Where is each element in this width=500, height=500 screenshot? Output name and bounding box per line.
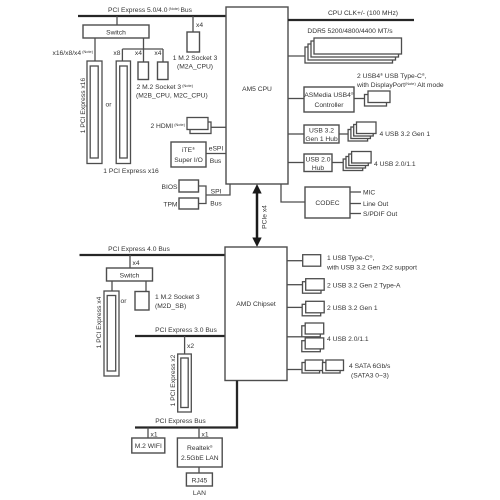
svg-text:USB 2.0: USB 2.0 <box>306 157 331 164</box>
label 1 USB Type-C with USB 3.2 Gen 2x2 support <box>326 254 417 272</box>
svg-text:BIOS: BIOS <box>162 184 179 191</box>
wire CPU to USB 2.0 hub <box>288 162 304 164</box>
wire bus3 to PCIe x2 slot <box>184 336 186 354</box>
svg-text:4 USB 2.0/1.1: 4 USB 2.0/1.1 <box>374 161 416 168</box>
ASMedia USB4 controller <box>304 87 354 112</box>
DDR5 DIMM stack <box>305 38 402 63</box>
wire bus4 to M.2 WIFI <box>147 428 149 439</box>
svg-text:(M2A_CPU): (M2A_CPU) <box>177 64 213 71</box>
label 4 SATA 6Gb/s (SATA3 0~3) <box>349 363 391 380</box>
bus PCI Express 4.0 <box>80 246 226 255</box>
Realtek 2.5GbE LAN <box>177 438 222 467</box>
svg-text:Gen 1 Hub: Gen 1 Hub <box>305 136 338 143</box>
svg-text:PCIe x4: PCIe x4 <box>262 205 269 229</box>
svg-text:1 M.2 Socket 3: 1 M.2 Socket 3 <box>155 294 200 301</box>
M.2 socket M2D_SB <box>135 292 149 311</box>
svg-text:1 USB Type-C®,: 1 USB Type-C®, <box>327 254 375 262</box>
wire hub to USB 2.0 ports <box>332 162 343 164</box>
svg-text:1 PCI Express x2: 1 PCI Express x2 <box>170 354 177 406</box>
USB4 port stack <box>365 91 391 106</box>
svg-text:with USB 3.2 Gen 2x2 support: with USB 3.2 Gen 2x2 support <box>326 265 417 272</box>
wire chipset to SATA <box>287 369 302 371</box>
USB 3.2 Gen 1 stack (chipset) <box>302 301 324 316</box>
wire Realtek to RJ45 <box>198 467 200 473</box>
wire CPU CLK <box>288 19 414 21</box>
svg-text:Switch: Switch <box>120 273 140 280</box>
svg-text:(M2B_CPU, M2C_CPU): (M2B_CPU, M2C_CPU) <box>136 93 208 100</box>
wire switch2 to M2D <box>145 281 147 292</box>
wire CPU to USB 3.2 hub <box>288 133 304 135</box>
USB 2.0 port stack <box>343 152 371 171</box>
PCIe x4 double arrow <box>252 184 261 247</box>
svg-text:x8: x8 <box>113 50 120 57</box>
svg-text:DDR5 5200/4800/4400 MT/s: DDR5 5200/4800/4400 MT/s <box>307 28 393 35</box>
svg-text:S/PDIF Out: S/PDIF Out <box>363 211 397 218</box>
SATA port stacks <box>302 360 344 373</box>
svg-text:PCI Express 3.0 Bus: PCI Express 3.0 Bus <box>155 327 217 334</box>
wire bus1 to switch <box>116 16 118 25</box>
svg-text:1 PCI Express x16: 1 PCI Express x16 <box>80 78 87 134</box>
label 2 USB4 USB Type-C with DisplayPort Alt mode <box>356 72 444 89</box>
svg-text:SPI: SPI <box>211 189 222 196</box>
svg-text:PCI Express Bus: PCI Express Bus <box>155 418 206 425</box>
svg-text:M.2 WIFI: M.2 WIFI <box>135 443 162 450</box>
switch (chipset side) <box>107 268 153 281</box>
wire bus1 to M2A <box>192 16 194 32</box>
wire S/PDIF Out <box>350 213 361 215</box>
label 1 M.2 Socket 3 (M2A_CPU) <box>173 55 218 71</box>
svg-text:Line Out: Line Out <box>363 201 388 208</box>
svg-text:2 USB 3.2 Gen 1: 2 USB 3.2 Gen 1 <box>327 305 378 312</box>
PCIe x4 slot <box>104 291 119 376</box>
wire CPU to CODEC <box>281 184 305 202</box>
svg-text:2.5GbE LAN: 2.5GbE LAN <box>181 455 219 462</box>
svg-text:1 M.2 Socket 3: 1 M.2 Socket 3 <box>173 55 218 62</box>
USB 2.0 Hub <box>304 154 332 172</box>
svg-text:MIC: MIC <box>363 190 375 197</box>
svg-text:x4: x4 <box>196 22 203 29</box>
svg-text:Hub: Hub <box>312 165 325 172</box>
svg-text:(SATA3 0~3): (SATA3 0~3) <box>351 373 389 380</box>
AMD Chipset <box>225 247 287 381</box>
svg-text:TPM: TPM <box>163 202 178 209</box>
svg-text:x2: x2 <box>187 343 194 350</box>
USB 3.2 Gen 1 Hub <box>304 125 339 143</box>
RJ45 box <box>186 473 212 486</box>
CODEC <box>305 187 350 218</box>
svg-text:1 PCI Express x4: 1 PCI Express x4 <box>96 296 103 348</box>
BIOS box <box>179 180 199 192</box>
wire hub to USB 3.2 ports <box>339 133 348 135</box>
PCIe x16 slot 1 <box>87 61 102 164</box>
svg-text:RJ45: RJ45 <box>192 478 208 485</box>
AM5 CPU <box>226 7 288 184</box>
wire chipset to USB 2.0 <box>287 336 302 338</box>
wire switch2 to PCIe x4 slot <box>111 281 113 291</box>
svg-text:ASMedia USB4®: ASMedia USB4® <box>304 91 353 99</box>
svg-text:USB 3.2: USB 3.2 <box>309 128 334 135</box>
svg-text:CODEC: CODEC <box>315 200 339 207</box>
wire chipset to USB 3.2 Gen 1 <box>287 306 302 308</box>
wire CPU to DDR5 <box>288 55 305 57</box>
svg-text:eSPI: eSPI <box>209 146 224 153</box>
wire ASMedia to USB4 ports <box>354 98 365 100</box>
svg-text:4 SATA 6Gb/s: 4 SATA 6Gb/s <box>349 363 391 370</box>
svg-text:CPU CLK+/- (100 MHz): CPU CLK+/- (100 MHz) <box>328 10 398 17</box>
svg-text:4 USB 2.0/1.1: 4 USB 2.0/1.1 <box>327 336 369 343</box>
svg-text:2 USB 3.2 Gen 2 Type-A: 2 USB 3.2 Gen 2 Type-A <box>327 283 401 290</box>
TPM box <box>179 198 199 209</box>
svg-text:with DisplayPort(Note) Alt mod: with DisplayPort(Note) Alt mode <box>356 81 444 89</box>
switch (CPU side) <box>83 25 149 38</box>
svg-text:PCI Express 5.0/4.0 (Note) Bus: PCI Express 5.0/4.0 (Note) Bus <box>108 6 193 14</box>
svg-text:Bus: Bus <box>210 158 222 165</box>
label SPI Bus <box>210 189 222 208</box>
HDMI connector stack <box>187 118 211 134</box>
PCIe x2 slot <box>178 354 192 412</box>
svg-text:Controller: Controller <box>315 102 345 109</box>
wire chipset to PCI Express bus <box>236 381 238 429</box>
wire CPU to ASMedia <box>288 98 304 100</box>
wire Line Out <box>350 203 361 205</box>
wire HDMI to CPU <box>211 126 226 128</box>
svg-text:LAN: LAN <box>193 490 206 497</box>
wire bus2 to switch2 <box>129 255 131 268</box>
svg-text:(M2D_SB): (M2D_SB) <box>155 303 186 310</box>
label eSPI Bus <box>209 146 224 166</box>
wire chipset to USB 3.2 Gen 2 <box>287 284 303 286</box>
svg-text:AM5 CPU: AM5 CPU <box>242 86 272 93</box>
M.2 socket M2A_CPU <box>187 32 200 52</box>
wire chipset to USB Type-C <box>287 260 303 262</box>
USB 3.2 Gen 1 port stack <box>348 122 376 141</box>
svg-text:x4: x4 <box>135 50 142 57</box>
USB 3.2 Gen 2 Type-A stack <box>303 279 325 294</box>
M.2 socket M2B_CPU <box>138 62 149 80</box>
svg-text:1 PCI Express x16: 1 PCI Express x16 <box>103 168 159 175</box>
svg-text:2 USB4® USB Type-C®,: 2 USB4® USB Type-C®, <box>357 72 427 80</box>
wire bus4 to Realtek LAN <box>198 428 200 439</box>
wire switch splitter <box>122 38 163 62</box>
svg-text:or: or <box>121 298 128 305</box>
wire switch to PCIe x16 slot 1 <box>94 38 96 61</box>
svg-text:Super I/O: Super I/O <box>174 157 203 164</box>
iTE Super I/O <box>171 142 206 167</box>
wire SPI bus <box>199 184 231 204</box>
label 2 M.2 Socket 3 (M2B_CPU, M2C_CPU) <box>136 83 208 100</box>
svg-text:PCI Express 4.0 Bus: PCI Express 4.0 Bus <box>108 246 170 253</box>
M.2 WIFI box <box>132 438 165 453</box>
USB Type-C port <box>303 255 321 267</box>
bus PCI Express 5.0/4.0 <box>78 6 226 16</box>
svg-text:Realtek®: Realtek® <box>187 444 213 452</box>
svg-text:or: or <box>106 102 113 109</box>
bus PCI Express 3.0 <box>135 327 225 336</box>
USB 2.0 stack (chipset) <box>302 323 324 352</box>
svg-text:x4: x4 <box>154 50 161 57</box>
wire MIC <box>350 191 361 193</box>
svg-text:Bus: Bus <box>210 201 222 208</box>
PCIe x16 slot 2 <box>116 61 130 164</box>
M.2 socket M2C_CPU <box>158 62 169 80</box>
bus PCI Express <box>135 418 238 428</box>
svg-text:Switch: Switch <box>106 30 126 37</box>
svg-text:4 USB 3.2 Gen 1: 4 USB 3.2 Gen 1 <box>380 131 431 138</box>
wire iTE to CPU (eSPI bus) <box>206 153 226 155</box>
svg-text:x4: x4 <box>133 260 140 267</box>
label 1 M.2 Socket 3 (M2D_SB) <box>155 294 200 310</box>
svg-text:AMD Chipset: AMD Chipset <box>236 301 276 308</box>
